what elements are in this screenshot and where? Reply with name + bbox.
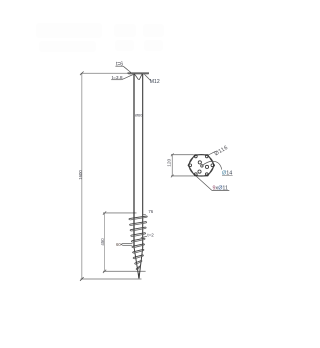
cone right wall to tip [139,248,143,278]
svg-text:1600: 1600 [78,170,83,180]
dimension 1600 top extension line [81,72,128,74]
tube left wall [133,74,135,247]
label 76 tick [143,214,146,216]
detail view: bolt hole top-right [205,155,208,158]
label 9xphi11 leader [196,176,212,191]
detail view: bolt hole bottom-left [194,173,197,176]
detail view: center hole phi14 [201,165,203,167]
dimension 450 tick top [103,211,106,214]
helix edge loops [129,216,147,270]
dimension 450 bottom extension line [103,270,146,272]
svg-text:60: 60 [116,242,121,247]
label phi14 underline [222,174,233,176]
helix pitch fork tip [121,243,122,245]
detail view: dimension 120 tick top [171,153,174,156]
label t=2 leader [141,236,147,238]
svg-text:M12: M12 [150,79,160,85]
detail view: inner hole upper [198,161,201,164]
dimension 450 line [104,213,106,271]
dimension 450 top extension line [103,212,137,214]
detail view: inner hole lower [198,170,201,173]
svg-text:Ø60: Ø60 [135,112,143,117]
detail view: bolt hole top-left [194,155,197,158]
svg-text:120: 120 [166,158,172,166]
helix flight front lines [129,216,147,269]
chamfer V lines under flange [134,74,142,80]
label t=6 leader [123,66,131,73]
helix pitch fork upper line [123,242,133,244]
helix flight back lines [130,217,146,269]
label M12 leader [144,74,150,80]
faint watermark ghost blocks [36,23,164,52]
svg-text:450: 450 [100,238,105,246]
detail view: bolt hole left [189,164,192,167]
cone left wall to tip [134,247,139,278]
tube right wall [142,74,144,248]
dimension 1600 tick bottom [80,277,84,281]
label t=3.8 leader [122,75,134,80]
detail view: flange circle [189,154,213,176]
detail view: dimension 120 top extension [171,154,194,156]
svg-text:t=2: t=2 [147,233,154,238]
helix pitch fork lower line [123,244,132,246]
label phi116 leader [207,151,215,155]
detail view: inner hole right [205,165,208,168]
screw tip point [138,274,140,279]
dimension 1600 line [81,73,83,279]
detail view: hexagonal flange plate [188,155,214,176]
label t=6 underline [115,65,123,67]
svg-text:9xØ11: 9xØ11 [213,186,229,192]
detail view: dimension 120 tick bottom [171,175,174,178]
label t=3.8 underline [111,79,121,81]
detail view: dimension 120 bottom extension [171,175,194,177]
detail view: bolt hole bottom-right [205,173,208,176]
flange plate bottom line [128,74,148,76]
label 9xphi11 underline [212,190,229,192]
dimension 1600 bottom extension line [81,278,142,280]
flange plate top line [128,72,150,74]
detail view: bolt hole right [211,164,214,167]
dimension 450 tick bottom [103,270,106,273]
dimension 1600 tick top [80,72,84,76]
svg-text:76: 76 [148,209,153,214]
detail view: dimension 120 line [171,155,173,176]
svg-text:Ø116: Ø116 [214,145,230,158]
label phi14 leader spline [202,161,222,169]
